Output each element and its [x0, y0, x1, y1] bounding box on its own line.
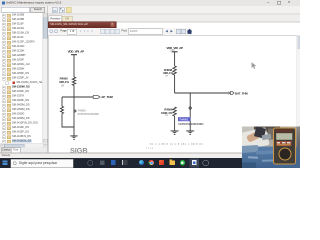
- right panel toolbar: [48, 6, 300, 14]
- resistor R4008: [173, 66, 176, 75]
- resistor R4005: [72, 77, 75, 86]
- svg-text:1W: 1W: [165, 76, 169, 78]
- svg-text:4 1 1 4: 4 1 1 4: [146, 147, 154, 150]
- node branch wire to port and thermistor leg: [62, 96, 93, 98]
- port AP_THM: [93, 96, 100, 99]
- ground under TH4001: [186, 130, 194, 132]
- selected refdes TH4001: [178, 117, 191, 121]
- ground (left circuit): [70, 135, 77, 137]
- thermistor branch left leg down: [61, 97, 63, 106]
- multimeter: [273, 128, 296, 165]
- svg-text:NCP15XH103F03RC: NCP15XH103F03RC: [77, 114, 99, 116]
- wire VDD to R4005: [73, 55, 75, 77]
- maroon document title bar: [48, 21, 116, 28]
- windows taskbar: [0, 158, 300, 168]
- schematic canvas: [48, 36, 300, 153]
- wire R4009 to ground: [174, 116, 176, 131]
- power tap bar (right): [172, 51, 178, 53]
- wire VDD to R4008: [174, 52, 176, 66]
- svg-text:AP_THM: AP_THM: [101, 95, 113, 99]
- pager toolbar: [48, 28, 192, 35]
- window title bar: [0, 0, 300, 7]
- webcam overlay: [242, 126, 300, 168]
- junction circle TH4000: [74, 110, 76, 112]
- svg-text:SIGB: SIGB: [70, 146, 88, 153]
- power tap bar (left): [71, 54, 77, 56]
- mouse cursor: [252, 62, 257, 69]
- thermistor TH4000 zigzag: [61, 106, 64, 113]
- svg-text:1W: 1W: [61, 85, 65, 88]
- svg-text:VDD_VRI_AP: VDD_VRI_AP: [68, 49, 85, 53]
- svg-text:NCP15XH103F03RC: NCP15XH103F03RC: [178, 122, 203, 126]
- svg-text:62K,1%: 62K,1%: [59, 80, 69, 84]
- main stem node to ground: [73, 97, 75, 136]
- junction circle TH4001: [189, 107, 191, 109]
- ground under R4009: [171, 130, 179, 132]
- wire R4008 to node: [174, 75, 176, 93]
- svg-text:1W: 1W: [165, 115, 169, 117]
- wire R4005 to node: [73, 86, 75, 98]
- document tab row: [48, 15, 300, 23]
- branch wire to TH4001: [189, 93, 191, 131]
- status bar: [0, 153, 300, 159]
- thermistor leg to bottom rejoin: [62, 114, 74, 127]
- resistor R4009: [173, 107, 176, 116]
- node wire to BAT_THM port: [175, 92, 229, 94]
- svg-text:BAT_THM: BAT_THM: [235, 91, 248, 95]
- left tree panel: [0, 6, 49, 152]
- svg-text:81 1 4 88 8 11 1 8 481 1 88 8: 81 1 4 88 8 11 1 8 481 1 88 8 84: [150, 142, 203, 146]
- port BAT_THM: [228, 92, 230, 95]
- svg-text:TH4001: TH4001: [179, 117, 189, 121]
- svg-text:TH4000: TH4000: [77, 111, 86, 113]
